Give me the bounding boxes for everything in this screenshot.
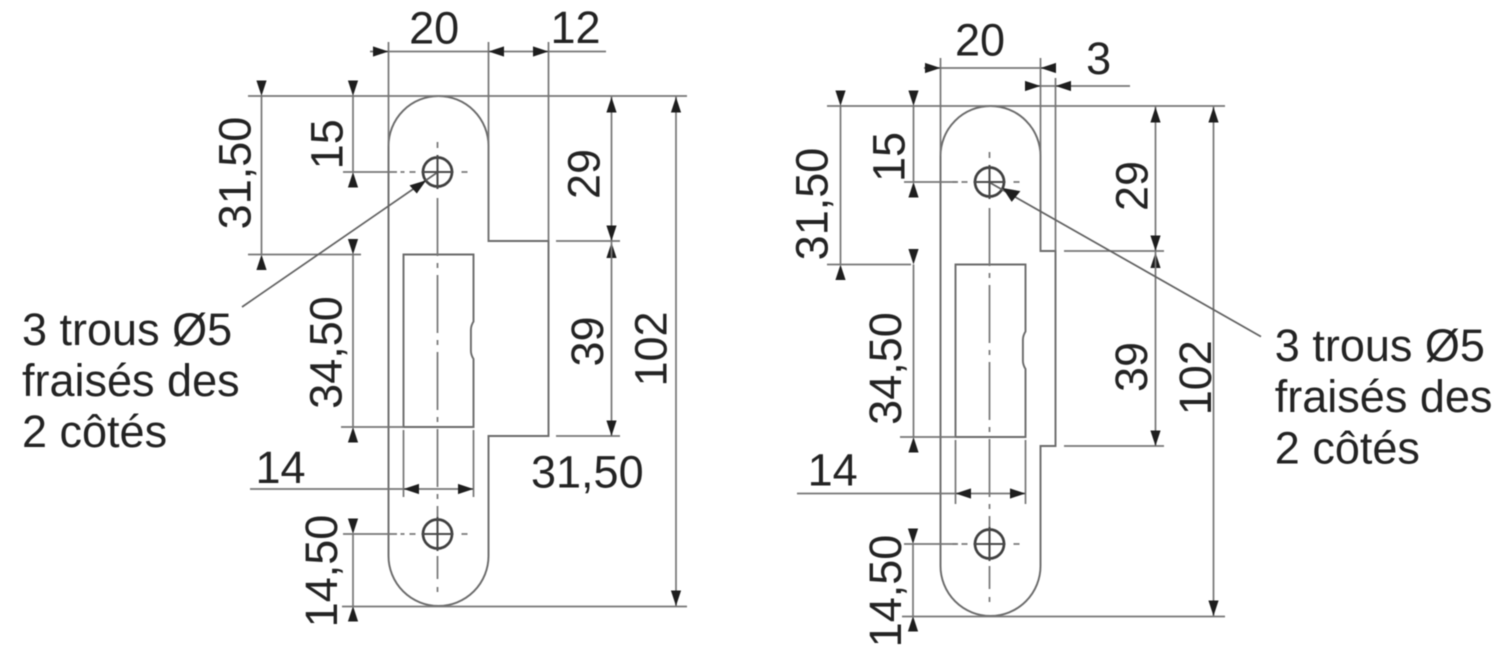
screw hole bottom (dia 5) [423, 520, 452, 549]
plate outline (right strike plate) [941, 106, 1056, 616]
extension line top hole center [343, 171, 397, 173]
extension line tab top [1064, 250, 1164, 252]
dimension 3 (tab width, right drawing) [1055, 78, 1057, 251]
svg-text:2 côtés: 2 côtés [1275, 423, 1420, 474]
screw hole bottom (dia 5) [975, 530, 1004, 559]
extension line bottom hole center [904, 543, 958, 545]
leader line to top hole (right) [991, 183, 1262, 337]
dimension 15 (top to hole, left) [352, 96, 354, 172]
svg-text:15: 15 [864, 132, 915, 182]
svg-text:31,50: 31,50 [787, 148, 838, 261]
dimension 34,50 (cutout height, left) [352, 255, 354, 428]
svg-text:20: 20 [955, 15, 1005, 66]
svg-text:2 côtés: 2 côtés [22, 406, 167, 457]
dimension 14 (cutout width, right) [955, 440, 957, 504]
dimension 20 (top width, left drawing) [388, 42, 390, 146]
dimension 14,50 (bottom hole to bottom, right) [912, 544, 914, 616]
svg-text:12: 12 [550, 2, 600, 53]
dimension 102 (overall height, left) [675, 96, 677, 606]
extension line cutout bottom [900, 436, 956, 438]
dimension 31,50 (top to cutout, right) [840, 106, 842, 265]
svg-text:fraisés des: fraisés des [1275, 371, 1493, 422]
svg-text:20: 20 [409, 2, 459, 53]
svg-text:14,50: 14,50 [860, 535, 911, 648]
dimension 14,50 (bottom hole to bottom, left) [352, 534, 354, 606]
screw hole top (dia 5) [423, 158, 452, 187]
svg-text:3: 3 [1086, 33, 1111, 84]
dimension 39 (tab height, right) [1155, 251, 1157, 446]
extension line cutout top [248, 254, 361, 256]
plate outline (left strike plate) [389, 96, 549, 606]
svg-text:31,50: 31,50 [531, 447, 644, 498]
extension line cutout bottom [341, 426, 404, 428]
dimension 102 (overall height, right) [1213, 106, 1215, 616]
extension line top edge [827, 105, 1225, 107]
extension line bottom edge [342, 606, 687, 608]
svg-text:3 trous Ø5: 3 trous Ø5 [22, 304, 232, 355]
extension line tab bottom [1064, 445, 1164, 447]
dimension 34,50 (cutout height, right) [913, 265, 915, 438]
dimension 15 (top to hole, right) [913, 106, 915, 182]
screw hole top (dia 5) [975, 168, 1004, 197]
extension line top hole center [904, 181, 958, 183]
extension line bottom hole center [343, 533, 397, 535]
latch cutout rectangle [404, 255, 474, 428]
svg-text:3 trous Ø5: 3 trous Ø5 [1275, 320, 1485, 371]
svg-text:14: 14 [255, 442, 305, 493]
dimension 39 (tab height, left) [611, 241, 613, 436]
dimension 29 (top to tab, left) [611, 96, 613, 241]
dimension 14 (cutout width, left) [403, 430, 405, 497]
extension line tab top [556, 240, 620, 242]
dimension 20 (top width, right drawing) [940, 58, 942, 156]
svg-text:39: 39 [562, 316, 613, 366]
svg-text:102: 102 [626, 311, 677, 386]
svg-text:fraisés des: fraisés des [22, 355, 240, 406]
svg-text:102: 102 [1170, 340, 1221, 415]
latch cutout rectangle [956, 265, 1026, 438]
vertical centerline [437, 142, 439, 148]
extension line bottom edge [902, 616, 1225, 618]
svg-text:29: 29 [559, 149, 610, 199]
svg-text:14,50: 14,50 [296, 515, 347, 628]
dimension 31,50 (top to cutout, left) [261, 96, 263, 255]
extension line top edge [248, 95, 687, 97]
leader line to top hole (left) [242, 173, 437, 307]
svg-text:15: 15 [302, 119, 353, 169]
svg-text:34,50: 34,50 [860, 312, 911, 425]
extension line cutout top [827, 264, 911, 266]
svg-text:31,50: 31,50 [210, 117, 261, 230]
vertical centerline [989, 152, 991, 158]
extension line tab bottom [556, 435, 620, 437]
dimension 29 (top to tab, right) [1155, 106, 1157, 251]
svg-text:34,50: 34,50 [301, 296, 352, 409]
svg-text:39: 39 [1106, 342, 1157, 392]
svg-text:14: 14 [808, 445, 858, 496]
dimension 12 (tab width, left drawing) [548, 42, 550, 241]
svg-text:29: 29 [1107, 161, 1158, 211]
